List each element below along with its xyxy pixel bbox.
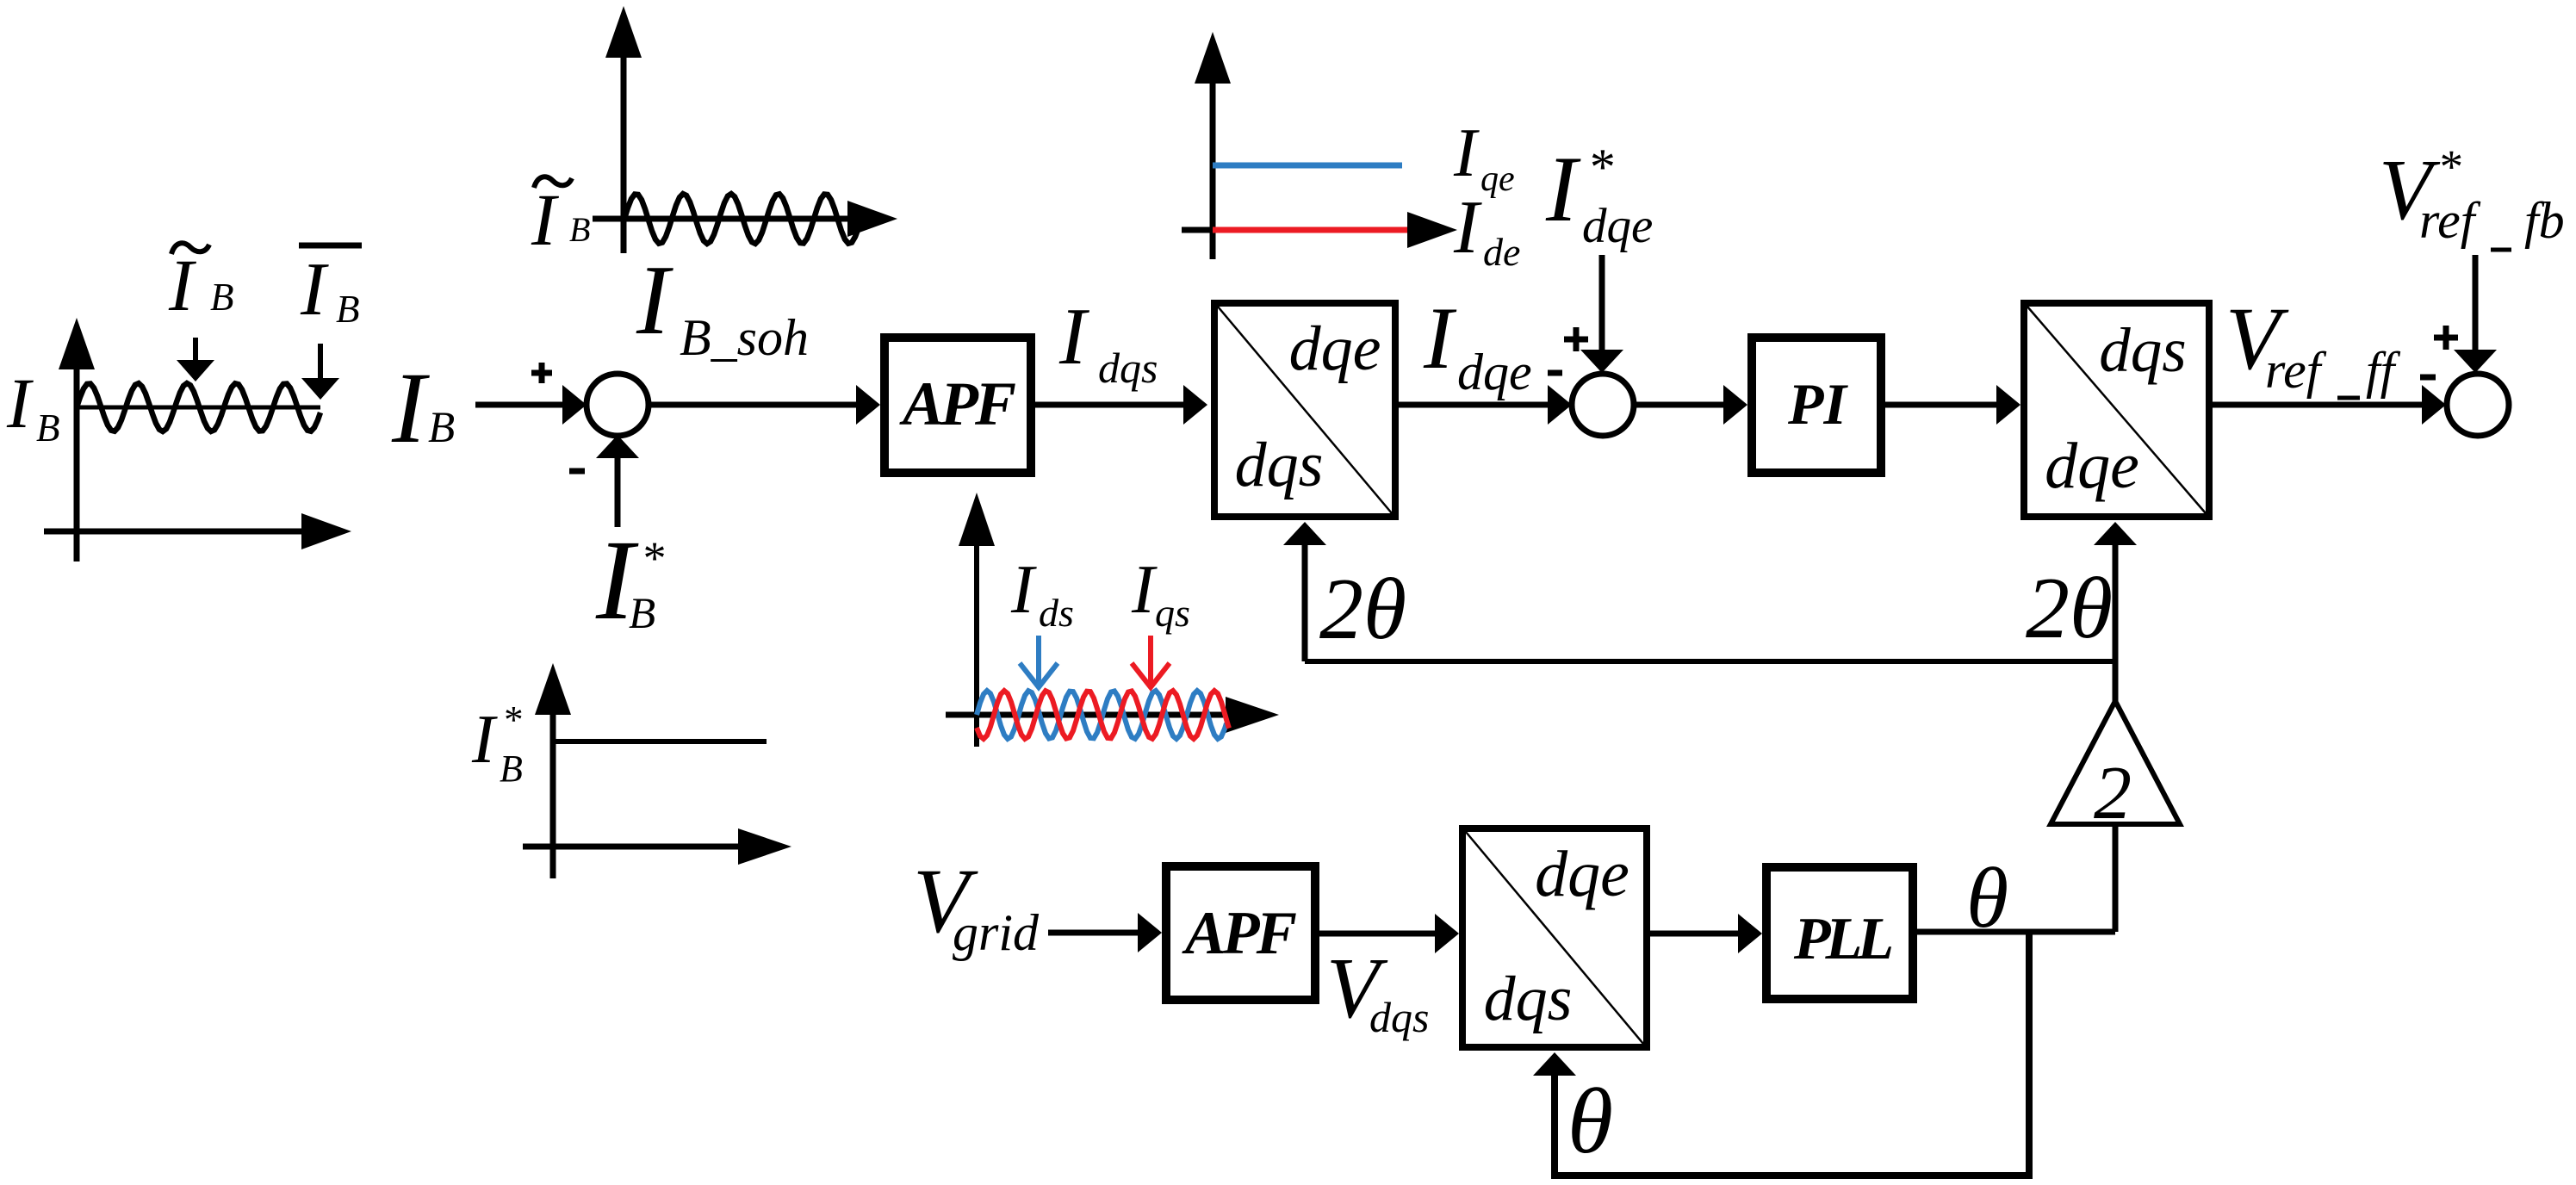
graph C: synchronous currents plot (vertical axis) [1210,78,1216,259]
wire I_B to summing junction 1 [475,402,568,408]
svg-text:I: I [300,248,329,332]
svg-text:qs: qs [1155,591,1190,635]
graph B horizontal axis arrowhead [847,201,897,237]
graph D I_ds waveform (blue) [977,691,1226,739]
graph B vertical axis arrowhead [605,6,642,58]
svg-text:B: B [336,288,360,331]
summing junction 3 [2447,374,2509,436]
wire transform 3 to PLL [1650,931,1743,937]
svg-text:dqe: dqe [1457,344,1532,400]
svg-text:B: B [36,406,60,450]
transform block 2 (dqs/dqe) [2024,303,2209,517]
graph B: extracted ripple waveform plot (axes) [593,52,853,253]
graph A mean line [77,406,320,410]
svg-text:dqs: dqs [1098,344,1158,392]
2-theta wire up into transform 1 [1302,540,1308,661]
graph C horizontal axis stub [1182,227,1213,233]
graph D I_qs pointer arrow (red open head) [1132,636,1170,687]
svg-text:qe: qe [1480,159,1515,199]
svg-text:B: B [428,404,455,452]
wire I*_dqe into junction 2 (from above) [1599,255,1605,351]
svg-text:dqe: dqe [2045,430,2139,502]
svg-text:PLL: PLL [1793,906,1892,972]
wire V*_ref_fb into junction 3 (from above) [2473,255,2479,351]
svg-text:θ: θ [1567,1070,1613,1173]
summing junction 2 [1572,374,1634,436]
svg-text:*: * [1587,139,1613,195]
transform block 3 (dqe/dqs) [1462,828,1647,1047]
wire V_grid to APF block 2 [1048,930,1143,936]
svg-text:2θ: 2θ [2026,560,2113,657]
wire PI to transform block 2 [1885,402,2002,408]
svg-text:I: I [1423,289,1457,388]
svg-text:*: * [641,532,664,584]
svg-text:dqe: dqe [1582,199,1653,253]
wire transform 2 to junction 3 [2209,402,2427,408]
svg-text:B: B [629,590,655,638]
svg-text:B: B [569,210,590,249]
wire theta from PLL up into triangle [2113,824,2119,932]
wire triangle output up to 2-theta wire [2113,661,2118,701]
svg-text:I: I [1058,292,1089,382]
svg-text:B: B [210,276,234,319]
junction 1 minus sign [569,468,585,475]
junction 2 plus sign [1564,337,1588,343]
svg-text:dqe: dqe [1535,838,1629,910]
junction 1 plus sign [531,370,552,376]
summing junction 1 [587,374,649,436]
svg-text:I: I [1010,552,1037,628]
svg-text:ds: ds [1039,591,1074,635]
gain block: multiply-by-2 triangle [2051,701,2180,824]
graph C horizontal axis arrowhead [1407,212,1457,248]
junction 2 minus sign [1548,370,1562,376]
svg-text:I: I [6,363,34,443]
wire I*_B into junction 1 (from below) [615,452,621,527]
svg-text:I: I [531,178,559,261]
graph A label tilde-I_B (ripple component) [171,243,209,254]
svg-text:ref: ref [2265,342,2327,399]
graph A bar-I_B pointer arrow [318,344,323,381]
svg-text:B: B [500,748,523,790]
svg-text:dqs: dqs [1484,964,1573,1034]
svg-text:*: * [2437,140,2461,193]
wire junction 2 to PI block [1634,402,1729,408]
svg-text:I: I [1131,552,1158,628]
svg-text:grid: grid [953,904,1040,961]
wire junction 1 to APF block [649,402,861,408]
graph A horizontal axis arrowhead [301,513,351,549]
graph A vertical axis arrowhead [59,318,95,369]
graph C I_qe level line (blue) [1213,163,1402,169]
transform block 1 (dqe/dqs) [1214,303,1395,517]
2-theta distribution wire (horizontal) [1305,659,2115,664]
svg-text:de: de [1483,230,1520,274]
svg-text:I: I [636,245,673,355]
wire PLL output theta [1917,929,2115,935]
graph C I_de level line (red) [1213,227,1407,233]
svg-text:2: 2 [2094,752,2132,835]
svg-text:I: I [391,351,430,464]
graph A: battery current waveform plot (axes) [44,366,306,561]
graph D: stationary currents plot (vertical axis doubles as wire into APF) [974,512,979,747]
svg-text:I: I [1545,137,1581,241]
svg-text:APF: APF [899,369,1015,438]
svg-text:PI: PI [1787,371,1849,437]
APF block U1 [885,338,1031,473]
svg-text:I: I [168,244,196,326]
wire transform 1 to junction 2 [1395,402,1553,408]
2-theta wire up into transform 2 [2113,540,2119,701]
svg-text:I: I [1453,115,1480,191]
svg-text:dqs: dqs [1235,430,1324,500]
graph D horizontal axis [946,712,1230,718]
PI block U2 [1752,338,1881,473]
APF block U3 [1166,866,1315,1000]
junction 3 plus sign [2434,335,2458,341]
graph E: reference current step plot (axes) [550,711,556,878]
junction 3 minus sign [2420,375,2436,381]
graph E step level line [553,739,767,744]
svg-text:ref: ref [2419,192,2481,249]
graph D I_qs waveform (red) [977,691,1229,739]
svg-text:B_soh: B_soh [680,309,809,366]
graph D I_ds pointer arrow (blue open head) [1020,636,1058,687]
svg-text:dqe: dqe [1289,313,1381,384]
svg-text:I: I [471,702,498,778]
svg-text:I: I [1453,186,1482,270]
svg-text:dqs: dqs [2099,315,2186,385]
wire APF to transform block 1 [1035,402,1189,408]
svg-text:*: * [502,698,522,741]
theta feedback arrow into transform 3 [1533,1052,1576,1076]
svg-text:APF: APF [1182,900,1297,967]
wire APF 2 to transform block 3 [1319,931,1440,937]
theta feedback wire down and left [1555,932,2029,1176]
graph A label bar-I_B (average component) [299,243,362,249]
graph B ripple waveform [624,194,858,244]
graph A ripple waveform [77,383,320,431]
graph A tilde-I_B pointer arrow [193,338,198,365]
svg-text:2θ: 2θ [1319,561,1406,658]
graph B label tilde-I_B [534,177,572,188]
svg-text:fb: fb [2524,192,2565,249]
svg-text:dqs: dqs [1369,993,1429,1041]
PLL block U4 [1766,867,1913,999]
